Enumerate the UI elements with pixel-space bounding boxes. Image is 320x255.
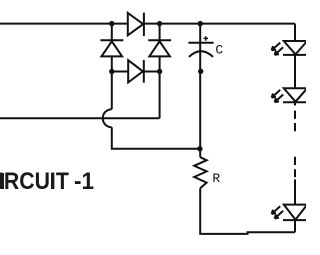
svg-text:R: R	[212, 171, 220, 186]
svg-text:C: C	[215, 42, 223, 57]
